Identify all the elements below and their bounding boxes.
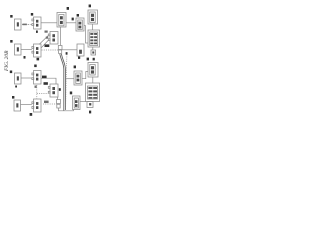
svg-text:FIG. 20B: FIG. 20B	[4, 50, 10, 72]
